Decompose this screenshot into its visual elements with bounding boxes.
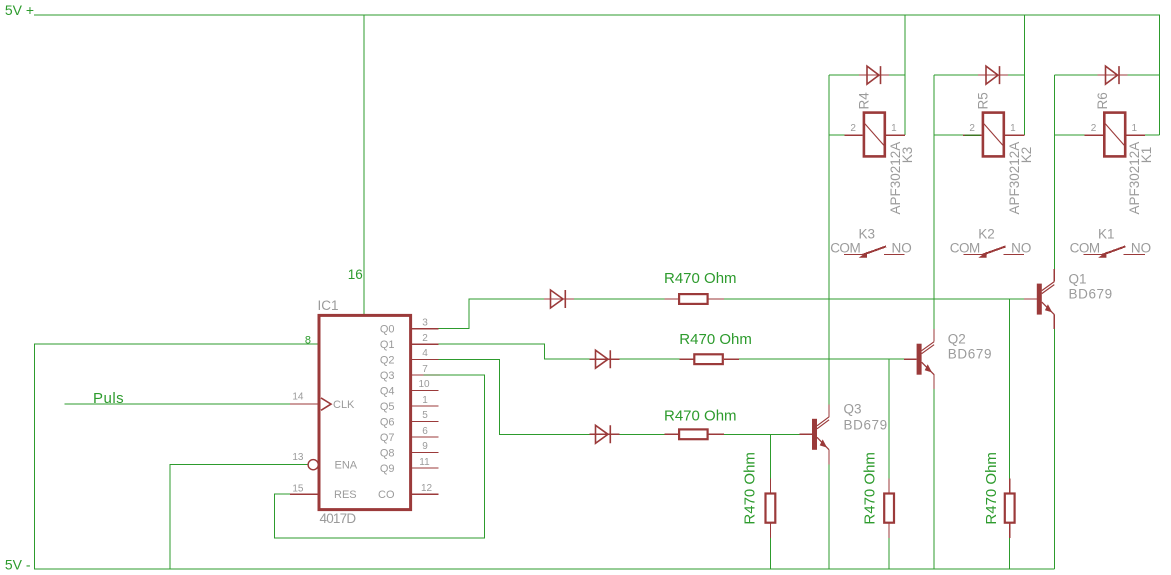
- svg-text:CO: CO: [378, 489, 395, 501]
- svg-text:K2: K2: [1019, 147, 1034, 164]
- svg-text:11: 11: [419, 457, 430, 468]
- svg-text:Q9: Q9: [380, 463, 395, 475]
- svg-text:12: 12: [421, 483, 433, 494]
- svg-text:COM: COM: [1070, 241, 1100, 256]
- svg-text:NO: NO: [1011, 241, 1031, 256]
- svg-text:Q4: Q4: [380, 385, 395, 397]
- svg-text:2: 2: [969, 123, 975, 134]
- svg-text:1: 1: [1132, 123, 1138, 134]
- svg-text:IC1: IC1: [318, 298, 339, 313]
- svg-text:5V +: 5V +: [5, 2, 34, 18]
- svg-text:1: 1: [422, 395, 428, 406]
- svg-text:Q8: Q8: [380, 447, 395, 459]
- svg-text:K3: K3: [900, 147, 915, 164]
- svg-text:NO: NO: [892, 241, 912, 256]
- svg-text:1: 1: [891, 123, 897, 134]
- svg-text:Q7: Q7: [380, 432, 395, 444]
- svg-text:RES: RES: [334, 489, 357, 501]
- svg-text:BD679: BD679: [844, 418, 888, 433]
- svg-text:3: 3: [422, 318, 428, 329]
- svg-text:COM: COM: [950, 241, 980, 256]
- svg-text:4: 4: [422, 348, 428, 359]
- svg-text:R470 Ohm: R470 Ohm: [664, 270, 737, 287]
- svg-text:R470 Ohm: R470 Ohm: [983, 452, 1000, 525]
- svg-text:Q3: Q3: [844, 402, 862, 417]
- svg-text:K2: K2: [978, 227, 995, 242]
- svg-text:Q5: Q5: [380, 401, 395, 413]
- svg-text:R6: R6: [1095, 92, 1110, 109]
- svg-text:10: 10: [418, 379, 430, 390]
- svg-text:K3: K3: [859, 227, 876, 242]
- svg-text:6: 6: [422, 426, 428, 437]
- svg-text:Puls: Puls: [93, 390, 124, 407]
- svg-text:R470 Ohm: R470 Ohm: [664, 408, 737, 425]
- svg-text:K1: K1: [1139, 147, 1154, 164]
- svg-text:R4: R4: [857, 92, 872, 110]
- svg-text:R470 Ohm: R470 Ohm: [862, 452, 879, 525]
- svg-text:CLK: CLK: [333, 399, 355, 411]
- svg-text:2: 2: [1091, 123, 1097, 134]
- svg-text:COM: COM: [830, 241, 860, 256]
- svg-text:Q3: Q3: [380, 370, 395, 382]
- svg-text:R470 Ohm: R470 Ohm: [679, 331, 752, 348]
- svg-text:5: 5: [422, 410, 428, 421]
- svg-text:8: 8: [305, 334, 311, 346]
- svg-text:K1: K1: [1098, 227, 1115, 242]
- svg-text:ENA: ENA: [335, 460, 358, 472]
- svg-text:15: 15: [292, 484, 304, 495]
- svg-text:Q2: Q2: [380, 354, 395, 366]
- svg-text:5V -: 5V -: [5, 557, 31, 573]
- svg-text:13: 13: [292, 452, 304, 463]
- svg-text:2: 2: [850, 123, 856, 134]
- svg-text:Q0: Q0: [380, 324, 395, 336]
- svg-text:Q6: Q6: [380, 416, 395, 428]
- svg-text:Q2: Q2: [948, 332, 966, 347]
- svg-text:NO: NO: [1131, 241, 1151, 256]
- svg-text:1: 1: [1010, 123, 1016, 134]
- svg-text:BD679: BD679: [948, 347, 992, 362]
- svg-text:7: 7: [422, 364, 428, 375]
- svg-text:9: 9: [422, 441, 428, 452]
- svg-text:14: 14: [292, 391, 304, 402]
- svg-text:4017D: 4017D: [320, 511, 357, 526]
- svg-text:Q1: Q1: [380, 339, 395, 351]
- svg-text:R5: R5: [976, 92, 991, 109]
- svg-text:16: 16: [348, 267, 363, 282]
- svg-text:2: 2: [422, 333, 428, 344]
- svg-text:R470 Ohm: R470 Ohm: [742, 452, 759, 525]
- svg-text:Q1: Q1: [1069, 272, 1087, 287]
- svg-text:BD679: BD679: [1069, 287, 1113, 302]
